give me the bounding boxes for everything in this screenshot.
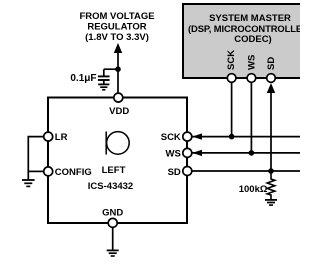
wire LR to ground bbox=[28, 137, 43, 180]
svg-text:LR: LR bbox=[55, 132, 68, 143]
svg-text:GND: GND bbox=[102, 208, 123, 219]
svg-text:(DSP, MICROCONTROLLER,: (DSP, MICROCONTROLLER, bbox=[188, 23, 300, 34]
svg-text:SCK: SCK bbox=[226, 50, 237, 70]
svg-text:REGULATOR: REGULATOR bbox=[87, 22, 146, 33]
microphone symbol bbox=[106, 132, 129, 155]
svg-text:CODEC): CODEC) bbox=[234, 34, 271, 45]
junction dot (WS) bbox=[249, 150, 255, 156]
pin WS bbox=[165, 148, 191, 159]
svg-text:SD: SD bbox=[168, 167, 181, 178]
svg-text:VDD: VDD bbox=[109, 106, 129, 117]
pin SCK (master) bbox=[226, 50, 237, 82]
wire VDD supply with up arrow bbox=[114, 43, 122, 93]
pin SD bbox=[168, 167, 192, 178]
ground (LR/CONFIG) bbox=[22, 180, 35, 186]
svg-text:WS: WS bbox=[165, 149, 180, 160]
svg-text:LEFT: LEFT bbox=[102, 165, 126, 176]
IC U1 ICS-43432 bbox=[48, 98, 187, 224]
ground (capacitor) bbox=[98, 84, 109, 89]
svg-text:100kΩ: 100kΩ bbox=[239, 184, 268, 195]
svg-text:WS: WS bbox=[246, 55, 257, 70]
svg-text:(1.8V TO 3.3V): (1.8V TO 3.3V) bbox=[85, 32, 149, 43]
wire CONFIG to ground bbox=[28, 170, 43, 172]
svg-text:FROM VOLTAGE: FROM VOLTAGE bbox=[79, 11, 154, 22]
wire WS net bbox=[192, 82, 300, 156]
wire SCK net bbox=[192, 82, 300, 139]
svg-text:ICS-43432: ICS-43432 bbox=[88, 181, 133, 192]
wire GND to ground bbox=[112, 227, 114, 250]
svg-text:0.1μF: 0.1μF bbox=[70, 73, 96, 84]
wire to capacitor bbox=[104, 69, 118, 75]
svg-text:SCK: SCK bbox=[161, 132, 181, 143]
pin CONFIG bbox=[44, 167, 92, 178]
pin LR bbox=[44, 132, 68, 143]
ground (resistor) bbox=[265, 200, 277, 205]
pin SD (master) bbox=[266, 57, 277, 83]
junction dot (SD) bbox=[268, 168, 274, 174]
pin GND bbox=[102, 208, 123, 228]
capacitor C1 0.1uF bbox=[98, 76, 110, 84]
wire SD net with up arrow bbox=[192, 83, 300, 171]
label: from voltage regulator bbox=[79, 11, 154, 43]
pin VDD bbox=[109, 93, 129, 117]
svg-text:SD: SD bbox=[266, 57, 277, 70]
junction dot (SCK) bbox=[229, 134, 235, 140]
system master U2 bbox=[183, 4, 313, 78]
pin SCK bbox=[161, 132, 192, 143]
ground (GND pin) bbox=[107, 250, 119, 256]
junction dot (VDD / C1) bbox=[115, 66, 121, 72]
svg-text:CONFIG: CONFIG bbox=[55, 167, 92, 178]
resistor R1 100k bbox=[267, 171, 275, 200]
pin WS (master) bbox=[246, 55, 257, 83]
